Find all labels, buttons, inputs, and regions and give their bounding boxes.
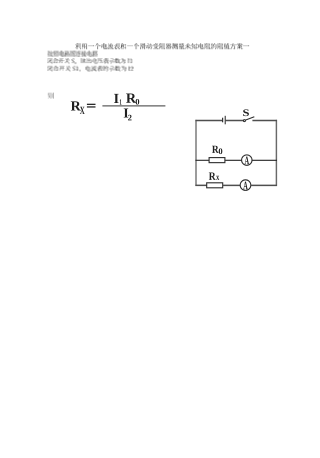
- text line 2: [48, 51, 98, 56]
- wire ammeter A1 to right: [252, 159, 277, 161]
- switch S pivot: [243, 120, 245, 122]
- battery cell: [222, 116, 226, 125]
- wire left vertical: [195, 120, 197, 186]
- label S: [243, 109, 249, 116]
- resistor R0: [209, 158, 225, 163]
- wire ammeter A2 to right: [251, 184, 277, 186]
- wire battery left segment: [195, 120, 222, 122]
- formula R_X: [71, 101, 85, 114]
- resistor Rx: [207, 183, 223, 188]
- formula numerator I1 R0: [114, 94, 139, 105]
- formula equals sign: [87, 104, 96, 108]
- wire middle-left segment: [195, 159, 209, 161]
- wire R0 to ammeter: [225, 159, 241, 161]
- wire switch to right segment: [252, 120, 277, 122]
- label R0: [212, 146, 222, 154]
- text "ze" (then): [48, 93, 54, 98]
- ammeter A2: [240, 180, 251, 191]
- formula denominator I2: [124, 108, 132, 120]
- ammeter A1: [242, 155, 252, 165]
- switch S lever: [245, 117, 254, 120]
- label Rx: [209, 173, 219, 180]
- wire battery to switch: [226, 120, 244, 122]
- wire bottom-left segment: [195, 184, 206, 186]
- text title line 1: [75, 44, 249, 49]
- wire right vertical: [275, 120, 277, 186]
- text line 4: [48, 66, 134, 71]
- text line 3: [48, 59, 133, 64]
- wire Rx to ammeter: [223, 184, 241, 186]
- formula fraction bar: [102, 105, 165, 107]
